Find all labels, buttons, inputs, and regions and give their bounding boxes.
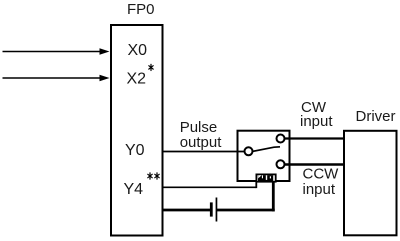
- wire battery right: [217, 182, 275, 212]
- relay coil box: [256, 174, 275, 181]
- battery cell: [210, 198, 217, 222]
- svg-text:X2: X2: [127, 71, 147, 88]
- contact CW: [277, 135, 285, 143]
- svg-text:input: input: [303, 181, 336, 198]
- svg-text:output: output: [180, 134, 223, 151]
- input arrow X2: [3, 75, 110, 81]
- svg-text:Y0: Y0: [125, 142, 145, 159]
- wire Y0 pulse output: [164, 151, 246, 153]
- svg-text:Driver: Driver: [356, 108, 396, 125]
- relay box: [238, 131, 290, 181]
- svg-text:X0: X0: [128, 42, 148, 59]
- PLC box FP0: [111, 25, 163, 236]
- svg-text:FP0: FP0: [127, 1, 155, 18]
- note mark *: [149, 64, 153, 70]
- contact common: [245, 147, 253, 155]
- contact CCW: [277, 160, 285, 168]
- svg-text:Y4: Y4: [124, 181, 144, 198]
- svg-text:input: input: [300, 113, 333, 130]
- wire battery left: [164, 209, 211, 212]
- input arrow X0: [3, 48, 110, 54]
- wire CW: [285, 137, 345, 139]
- wire Y4 to coil: [164, 182, 257, 189]
- svg-text:CCW: CCW: [303, 166, 340, 183]
- wire CCW: [285, 163, 345, 165]
- switch blade: [253, 147, 281, 152]
- driver box: [344, 131, 397, 236]
- note mark **: [148, 173, 159, 179]
